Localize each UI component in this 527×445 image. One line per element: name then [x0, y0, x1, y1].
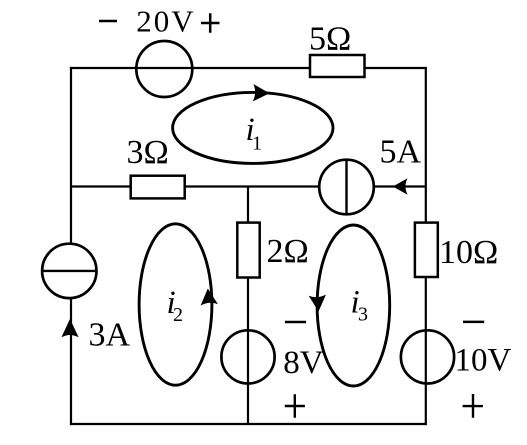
svg-text:8V: 8V: [283, 345, 324, 381]
arrow 3A up: [61, 319, 78, 337]
wire middle vertical: [247, 187, 249, 425]
wire top: [70, 67, 426, 69]
resistor R 2ohm: [237, 223, 259, 278]
voltage source 20V circle: [136, 41, 192, 97]
mesh loop i3 arrow: [309, 295, 328, 313]
mesh loop i1 arrow: [253, 84, 270, 102]
current source 3A circle: [42, 244, 96, 298]
svg-text:5A: 5A: [380, 133, 422, 170]
mesh loop i2 ellipse: [139, 224, 212, 385]
arrow 5A left: [393, 178, 408, 194]
wire left: [70, 67, 72, 425]
voltage source 10V circle: [401, 330, 454, 383]
resistor R 10ohm: [415, 223, 438, 277]
svg-text:3A: 3A: [89, 316, 131, 353]
svg-text:2: 2: [173, 304, 183, 326]
voltage source 8V circle: [221, 330, 274, 383]
label plus of 8V: [285, 394, 305, 418]
current source 3A bar: [42, 270, 96, 272]
svg-text:20V: 20V: [136, 4, 195, 39]
label minus of 10V: [463, 321, 484, 324]
wire right: [425, 67, 427, 425]
label minus of 20V: [99, 20, 117, 23]
mesh loop i1 ellipse: [173, 92, 333, 163]
svg-text:3Ω: 3Ω: [127, 134, 169, 171]
wire middle horizontal: [71, 185, 426, 187]
svg-text:10V: 10V: [455, 343, 512, 379]
svg-text:1: 1: [252, 133, 262, 155]
current source 5A bar: [345, 160, 347, 215]
resistor R 3ohm: [131, 176, 185, 199]
label minus of 8V: [285, 321, 306, 324]
resistor R 5ohm: [310, 55, 365, 77]
svg-text:5Ω: 5Ω: [309, 20, 351, 57]
svg-text:10Ω: 10Ω: [439, 234, 498, 271]
wire bottom: [70, 423, 427, 425]
mesh loop i3 ellipse: [317, 225, 390, 386]
mesh loop i2 arrow: [199, 288, 218, 306]
svg-text:3: 3: [358, 304, 368, 326]
current source 5A circle: [319, 160, 374, 215]
svg-text:2Ω: 2Ω: [267, 233, 309, 270]
label plus of 20V: [201, 13, 220, 33]
label plus of 10V: [463, 394, 483, 418]
